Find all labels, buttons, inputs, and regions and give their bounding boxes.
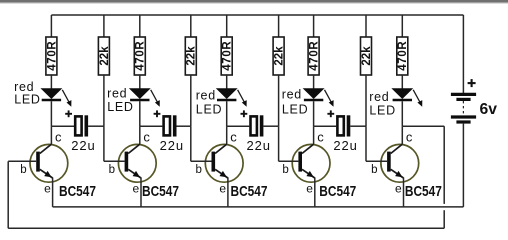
svg-text:c: c <box>55 130 62 145</box>
svg-text:22u: 22u <box>247 138 271 153</box>
label "red LED" (stage 4) <box>282 88 309 117</box>
svg-text:22u: 22u <box>71 138 95 153</box>
svg-text:c: c <box>143 130 150 145</box>
pin label b (Q2) <box>109 164 115 176</box>
label BC547 (Q5) <box>405 183 442 200</box>
svg-text:470R: 470R <box>222 41 234 71</box>
svg-text:22k: 22k <box>186 46 198 66</box>
svg-text:e: e <box>306 181 313 195</box>
LED D5 (red) <box>393 89 423 107</box>
wire battery - down to emitter rail <box>462 124 464 207</box>
svg-text:c: c <box>317 130 324 145</box>
pin label c (Q4) <box>317 130 324 145</box>
pin label b (Q3) <box>196 164 202 176</box>
label BC547 (Q3) <box>231 183 268 200</box>
wire 22k(2) junction down and right to base of Q3 <box>191 126 212 161</box>
pin label c (Q5) <box>406 130 413 145</box>
label "red LED" (stage 5) <box>369 90 396 117</box>
capacitor 22u (stage 3 to 4) <box>227 110 279 136</box>
svg-text:red: red <box>282 88 302 102</box>
value label 22u (C1) <box>71 138 95 153</box>
pin label e (Q5) <box>395 181 402 195</box>
svg-text:e: e <box>219 181 226 195</box>
wire feedback left vertical up to Q1 base <box>8 161 36 228</box>
svg-text:LED: LED <box>196 103 222 117</box>
pin label c (Q2) <box>143 130 150 145</box>
pin label c (Q3) <box>230 130 237 145</box>
svg-text:b: b <box>109 164 115 176</box>
svg-text:22k: 22k <box>99 46 111 66</box>
label "red LED" (stage 3) <box>196 88 223 116</box>
pin label e (Q1) <box>44 181 51 195</box>
resistor 470R (stage 5) <box>397 15 409 89</box>
wire LED3 cathode to collector node <box>226 101 228 126</box>
LED D2 (red) <box>130 89 160 107</box>
wire emitter ground rail <box>53 206 464 208</box>
svg-text:b: b <box>282 164 288 176</box>
capacitor 22u (stage 4 to 5) <box>314 110 366 136</box>
svg-text:LED: LED <box>282 102 308 116</box>
wire LED2 cathode to collector node <box>139 101 141 126</box>
resistor 470R (stage 4) <box>308 15 320 89</box>
wire top supply rail <box>51 14 463 16</box>
battery B1 6v <box>451 94 476 122</box>
svg-text:6v: 6v <box>480 101 498 118</box>
battery polarity label + <box>468 79 476 87</box>
label BC547 (Q4) <box>319 183 356 200</box>
svg-text:c: c <box>230 130 237 145</box>
resistor 470R (stage 2) <box>134 15 146 89</box>
wire 22k(1) junction down and right to base of Q2 <box>104 126 125 161</box>
wire emitter Q5 down to emitter rail <box>403 178 405 207</box>
svg-text:BC547: BC547 <box>59 183 96 200</box>
capacitor 22u (stage 2 to 3) <box>140 110 191 136</box>
svg-text:470R: 470R <box>309 41 321 71</box>
svg-text:470R: 470R <box>46 41 58 71</box>
svg-text:22u: 22u <box>333 138 357 153</box>
LED D1 (red) <box>42 89 72 107</box>
transistor Q4 (BC547) <box>292 126 330 182</box>
svg-text:LED: LED <box>107 100 133 114</box>
wire LED1 cathode to collector node <box>50 101 52 126</box>
label BC547 (Q2) <box>142 183 179 200</box>
wire feedback right vertical (hops over emitter rail) <box>443 126 445 228</box>
pin label b (Q1) <box>20 164 26 176</box>
wire 22k(3) junction down and right to base of Q4 <box>279 126 299 161</box>
resistor 22k (2) <box>185 15 197 126</box>
LED D4 (red) <box>304 89 334 107</box>
svg-text:c: c <box>406 130 413 145</box>
pin label b (Q4) <box>282 164 288 176</box>
svg-text:BC547: BC547 <box>319 183 356 200</box>
svg-text:22k: 22k <box>274 46 286 66</box>
label "red LED" (stage 1) <box>14 80 41 107</box>
wire LED4 cathode to collector node <box>313 101 315 126</box>
value label 22u (C4) <box>333 138 357 153</box>
wire emitter Q2 down to emitter rail <box>140 178 142 207</box>
svg-text:BC547: BC547 <box>142 183 179 200</box>
resistor 22k (1) <box>98 15 110 126</box>
wire top rail down to battery + <box>462 15 464 93</box>
pin label e (Q2) <box>133 181 140 195</box>
resistor 470R (stage 3) <box>221 15 233 89</box>
svg-text:470R: 470R <box>135 41 147 71</box>
svg-text:470R: 470R <box>397 41 409 71</box>
battery value label 6v <box>480 101 498 118</box>
svg-text:b: b <box>196 164 202 176</box>
svg-text:e: e <box>395 181 402 195</box>
wire LED5 cathode to collector node <box>401 101 403 126</box>
label BC547 (Q1) <box>59 183 96 200</box>
wire emitter Q1 down to emitter rail <box>52 178 54 207</box>
transistor Q1 (BC547) <box>30 126 68 182</box>
capacitor 22u (stage 1 to 2) <box>51 110 104 136</box>
svg-text:BC547: BC547 <box>231 183 268 200</box>
svg-text:red: red <box>107 87 127 101</box>
svg-text:red: red <box>369 90 389 104</box>
wire 22k(4) junction down and right to base of Q5 <box>366 126 387 161</box>
svg-text:b: b <box>20 164 26 176</box>
transistor Q2 (BC547) <box>118 126 156 182</box>
resistor 22k (4) <box>361 15 373 126</box>
pin label b (Q5) <box>371 164 377 176</box>
transistor Q3 (BC547) <box>205 126 243 182</box>
pin label e (Q4) <box>306 181 313 195</box>
pin label e (Q3) <box>219 181 226 195</box>
label "red LED" (stage 2) <box>107 87 134 115</box>
value label 22u (C3) <box>247 138 271 153</box>
svg-text:LED: LED <box>369 103 395 117</box>
svg-text:BC547: BC547 <box>405 183 442 200</box>
pin label c (Q1) <box>55 130 62 145</box>
transistor Q5 (BC547) <box>381 126 419 182</box>
wire emitter Q4 down to emitter rail <box>314 178 316 207</box>
svg-text:b: b <box>371 164 377 176</box>
wire feedback from Q5 collector to the right <box>402 125 444 127</box>
wire emitter Q3 down to emitter rail <box>227 178 229 207</box>
svg-text:e: e <box>44 181 51 195</box>
LED D3 (red) <box>217 89 247 107</box>
svg-text:red: red <box>196 88 216 102</box>
resistor 22k (3) <box>273 15 285 126</box>
resistor 470R (stage 1) <box>46 15 58 89</box>
wire feedback bottom rail <box>8 227 444 229</box>
value label 22u (C2) <box>160 138 184 153</box>
svg-text:22k: 22k <box>361 46 373 66</box>
svg-text:LED: LED <box>14 93 40 107</box>
svg-text:22u: 22u <box>160 138 184 153</box>
svg-text:e: e <box>133 181 140 195</box>
